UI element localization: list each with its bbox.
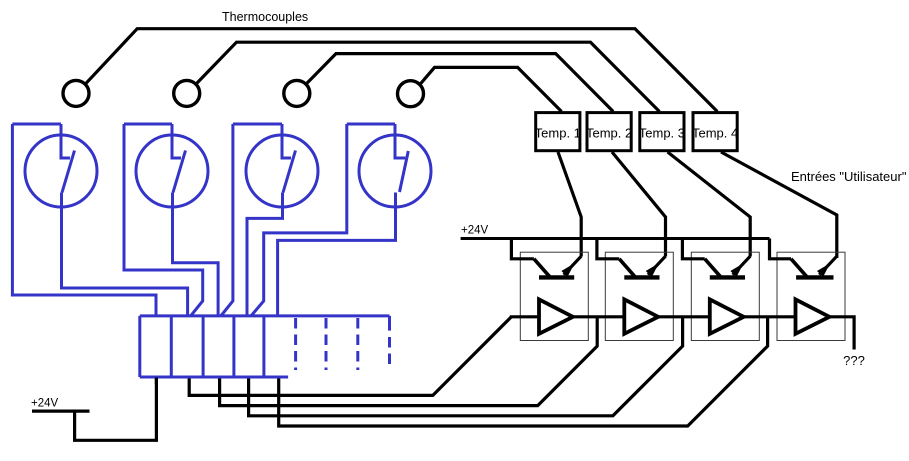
heater element circle H3 [246, 135, 318, 207]
wire Temp.1 output to U1 input [558, 152, 581, 257]
wire TC2 to Temp.3 [196, 42, 659, 111]
svg-text:+24V: +24V [461, 225, 489, 237]
wire TC4 to Temp.1 [420, 67, 562, 111]
svg-text:Thermocouples: Thermocouples [222, 10, 308, 24]
wire H1 left terminal to cell1 [12, 124, 156, 315]
heater element circle H1 [25, 135, 97, 207]
wire L1 terminal block to U1 amp input [189, 317, 511, 396]
svg-text:Temp. 4: Temp. 4 [692, 125, 738, 140]
opto block U1 [511, 239, 588, 341]
terminal block right edge part dashed [388, 337, 391, 370]
amplifier A2 [624, 299, 658, 333]
transistor Q4 base bar [796, 275, 833, 279]
terminal block dashed divider 6 [325, 318, 328, 370]
heater H2 [124, 124, 218, 316]
terminal block dashed divider 5 [294, 318, 297, 370]
svg-text:Temp. 3: Temp. 3 [639, 125, 685, 140]
flash symbol H3 [282, 124, 291, 158]
transistor Q1 base bar [539, 275, 574, 279]
wire H1 top [12, 123, 61, 126]
wire rail step into U1 [511, 239, 534, 259]
thermocouple junction TC1 [63, 80, 89, 106]
wire H1 bottom terminal to cell2 [62, 193, 188, 315]
heater element circle H2 [136, 135, 208, 207]
terminal block dashed divider 7 [356, 318, 359, 370]
svg-text:Temp. 1: Temp. 1 [535, 125, 581, 140]
terminal block top edge [140, 314, 390, 317]
terminal block right edge part solid [388, 316, 391, 331]
transistor Q4 left leg [791, 259, 807, 277]
heater element circle H4 [359, 135, 431, 207]
wire terminal block output stubs [155, 378, 158, 385]
transistor Q3 left leg [705, 259, 721, 277]
flash symbol H2 [172, 124, 181, 158]
svg-text:Temp. 2: Temp. 2 [586, 125, 632, 140]
amplifier A4 [796, 299, 830, 333]
wire L3 terminal block to node between U2 U3 [249, 317, 683, 416]
transistor Q2 left leg [619, 259, 635, 277]
heater H3 [221, 124, 318, 316]
wire H2 bottom terminal to cell3 [173, 193, 219, 315]
terminal block TB1 [140, 316, 390, 377]
thermocouple junction TC4 [398, 81, 424, 107]
wire Temp.4 output to U4 input [721, 152, 837, 258]
wire H2 top [124, 123, 172, 126]
svg-text:Entrées "Utilisateur": Entrées "Utilisateur" [791, 169, 907, 184]
wire rail step into U3 [682, 239, 704, 259]
wire L4 terminal block to node between U3 U4 [279, 317, 768, 426]
terminal block bottom edge [140, 376, 288, 379]
wire H3 top [233, 123, 282, 126]
opto block U4 [770, 239, 846, 341]
wire TC3 to Temp.2 [306, 54, 613, 112]
transistor Q3 right leg with arrow [733, 256, 751, 275]
converter box Temp. 2 [586, 113, 632, 151]
amplifier A1 [539, 299, 573, 333]
wire H4 top [347, 123, 395, 126]
wire amplifier output bus [510, 317, 854, 350]
wire H3 left terminal to cell3 [221, 124, 233, 316]
terminal block divider 3 [232, 316, 235, 377]
wire rail step into U2 [597, 239, 619, 259]
converter box Temp. 1 [535, 113, 581, 151]
terminal block divider 1 [170, 316, 173, 377]
transistor Q1 left leg [534, 259, 550, 277]
transistor Q1 right leg with arrow [564, 256, 582, 275]
transistor Q4 right leg with arrow [819, 256, 837, 275]
transistor Q2 right leg with arrow [648, 256, 666, 275]
thermocouple junction TC2 [174, 80, 200, 106]
opto block U2 [597, 239, 673, 341]
svg-text:+24V: +24V [31, 398, 59, 410]
flash symbol H1 [61, 124, 70, 158]
wire H4 left terminal to cell4 [251, 124, 346, 316]
transistor Q3 base bar [710, 275, 745, 279]
amplifier A3 [710, 299, 744, 333]
wire +24V left supply [32, 378, 156, 441]
terminal block divider 2 [202, 316, 205, 377]
converter box Temp. 3 [639, 113, 685, 151]
flash symbol H4 [395, 124, 405, 158]
transistor Q2 base bar [624, 275, 659, 279]
svg-text:???: ??? [843, 353, 865, 368]
wire H4 bottom terminal to cell5 [278, 193, 396, 315]
terminal block divider 4 [262, 316, 265, 377]
terminal block left edge [138, 316, 141, 377]
wire H2 left terminal to cell2 [124, 124, 203, 316]
wire TC1 to Temp.4 [85, 29, 717, 112]
thermocouple junction TC3 [284, 80, 310, 106]
wire rail step into U4 [770, 239, 792, 259]
opto block U3 [682, 239, 759, 341]
wire Temp.2 output to U2 input [612, 152, 666, 257]
heater H1 [12, 124, 187, 315]
wire +24V rail [461, 237, 770, 240]
wire H3 bottom terminal to cell4 [247, 193, 283, 315]
converter box Temp. 4 [692, 113, 738, 151]
wire Temp.3 output to U3 input [668, 152, 751, 257]
heater H4 [251, 124, 431, 316]
wire L2 terminal block to node between U1 U2 [220, 317, 598, 406]
